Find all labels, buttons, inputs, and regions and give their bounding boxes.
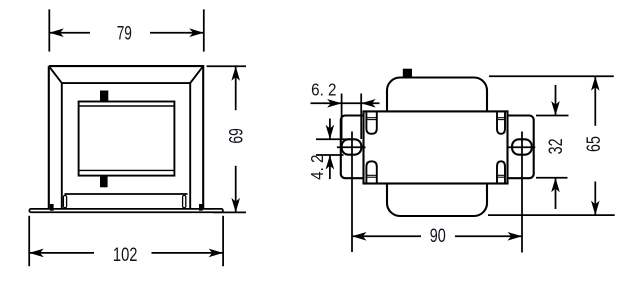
- dim 90 line right half with arrow: [455, 235, 522, 237]
- svg-text:6. 2: 6. 2: [311, 80, 336, 100]
- flange slot hole left vertical centerline (also dim 90 ext): [351, 132, 353, 253]
- dim 4.2 extension line top: [316, 138, 350, 140]
- svg-text:65: 65: [584, 136, 605, 152]
- mounting base plate: [29, 209, 223, 212]
- dim 102 extension line left: [28, 216, 30, 266]
- svg-text:79: 79: [117, 23, 132, 44]
- svg-text:69: 69: [227, 128, 248, 143]
- frame outer outline: [49, 66, 203, 209]
- coil bobbin front: [79, 102, 175, 176]
- terminal tab top (black): [100, 91, 108, 102]
- coil bobbin (top view, rounded): [387, 78, 487, 217]
- dim 32 extension line bottom: [536, 177, 568, 179]
- dim 65 line upper half with arrow (pointing up): [594, 76, 596, 126]
- foot block right (black): [199, 204, 203, 211]
- terminal tab bottom (black): [100, 176, 108, 187]
- dim 79 line left half with arrow: [49, 32, 90, 34]
- svg-text:102: 102: [113, 245, 138, 266]
- dim 6.2 line with outside arrows: [311, 102, 342, 104]
- lamination slot bottom-left: [366, 161, 376, 182]
- dim 65 extension line bottom: [488, 214, 615, 216]
- dim 4.2 extension line bottom: [316, 154, 344, 156]
- frame inner top edge: [62, 82, 190, 84]
- yoke end hook left: [63, 195, 66, 207]
- dim 102 line right half with arrow: [152, 252, 224, 254]
- dim 79 line right half with arrow: [150, 32, 204, 34]
- dim 69 line lower half with arrow: [235, 166, 237, 213]
- frame chamfer diagonal left: [49, 66, 62, 83]
- dim 4.2 arrow bottom (outside, pointing up): [329, 155, 331, 179]
- dim 79 extension line right: [203, 9, 205, 51]
- yoke end hook right: [183, 195, 186, 207]
- flange slot hole left horizontal centerline: [337, 146, 366, 148]
- svg-text:4. 2: 4. 2: [307, 155, 327, 180]
- frame inner left wall: [61, 83, 63, 211]
- dim 90 line left half with arrow: [352, 235, 421, 237]
- dim 32 arrow top (outside, pointing down): [555, 85, 557, 116]
- foot block left (black): [50, 204, 54, 211]
- dim 102 line left half with arrow: [29, 252, 94, 254]
- dim 79 extension line left: [48, 9, 50, 51]
- dim 4.2 arrow top (outside, pointing down): [329, 119, 331, 140]
- dim 32 arrow bottom (outside, pointing up): [555, 178, 557, 209]
- frame chamfer diagonal right: [190, 66, 203, 83]
- terminal tab (black) on bobbin: [403, 69, 412, 79]
- dim 69 extension line bottom: [213, 211, 246, 213]
- dim 69 extension line top: [207, 65, 246, 67]
- frame inner right wall: [189, 83, 191, 211]
- lamination core stack (top view): [364, 111, 508, 183]
- flange slot hole right: [512, 139, 532, 154]
- svg-text:90: 90: [430, 226, 446, 247]
- dim 65 extension line top: [489, 75, 614, 77]
- dim 32 extension line top: [536, 115, 569, 117]
- lamination slot bottom-right: [497, 161, 505, 182]
- lamination slot top-left: [366, 112, 376, 133]
- dim 6.2 extension line left: [341, 94, 343, 140]
- flange slot hole left: [342, 139, 362, 154]
- bottom yoke line: [65, 193, 188, 195]
- dim 102 extension line right: [222, 216, 224, 266]
- svg-text:32: 32: [546, 138, 567, 154]
- mounting flange tab left: [341, 116, 375, 179]
- dim 65 line lower half with arrow (pointing down): [594, 182, 596, 216]
- bobbin bottom flange line: [79, 169, 175, 171]
- lamination slot top-right: [497, 112, 505, 133]
- dim 69 line upper half with arrow: [235, 66, 237, 110]
- flange slot hole right vertical centerline (also dim 90 ext): [521, 132, 523, 253]
- mounting flange tab right: [499, 116, 534, 179]
- bobbin top flange line: [79, 105, 175, 107]
- flange slot hole right horizontal centerline: [508, 146, 535, 148]
- dim 6.2 extension line right: [360, 94, 362, 140]
